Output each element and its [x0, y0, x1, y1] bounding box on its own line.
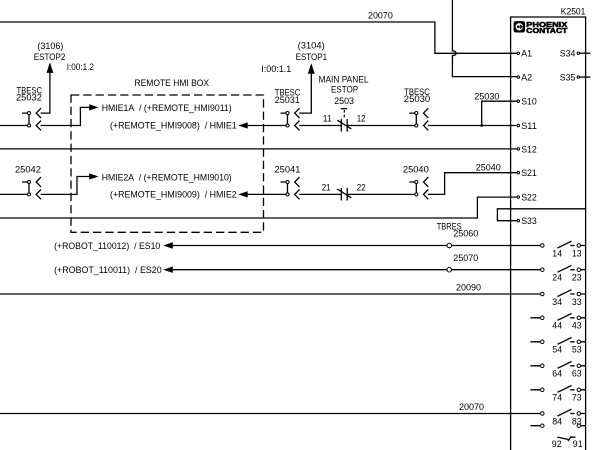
svg-text:A1: A1: [521, 49, 532, 59]
svg-text:20070: 20070: [368, 11, 393, 21]
pin A1: [517, 52, 519, 54]
svg-text:S34: S34: [560, 49, 576, 59]
pin S11: [517, 124, 519, 126]
arrow ES10: [163, 242, 173, 248]
svg-text:S10: S10: [521, 97, 537, 107]
svg-text:(3104): (3104): [298, 41, 325, 51]
wire S12 line: [0, 148, 517, 150]
svg-text:S22: S22: [521, 193, 537, 203]
wire ES20 row: [173, 269, 540, 271]
wire 25030 to S11: [428, 125, 517, 127]
terminal 25040: [409, 177, 428, 199]
svg-text:21: 21: [322, 183, 331, 193]
dashed enclosure REMOTE HMI BOX: [71, 95, 264, 232]
svg-text:20070: 20070: [459, 402, 484, 412]
svg-text:74: 74: [552, 393, 562, 403]
contact 23-24: [541, 265, 586, 282]
wire net 20070 top to A1: [0, 22, 517, 53]
svg-text:(+REMOTE_HMI9008) / HMIE1: (+REMOTE_HMI9008) / HMIE1: [110, 120, 237, 130]
svg-text:44: 44: [552, 321, 562, 331]
Phoenix Contact logo: [514, 20, 568, 35]
svg-text:25040: 25040: [476, 163, 501, 173]
wire net 20070 bottom: [0, 413, 540, 415]
terminal 25041: [281, 177, 300, 199]
NC contact 2503 pins 11-12: [337, 109, 351, 132]
wire 25041 to contact 21: [299, 193, 341, 195]
wire HMIE1 to 25031: [248, 125, 286, 127]
contact 91-92: [530, 424, 585, 449]
svg-text:25031: 25031: [275, 95, 300, 105]
wire 25031 to contact 11: [299, 125, 341, 127]
terminal TBESC 25031: [281, 108, 300, 130]
svg-text:20090: 20090: [456, 282, 481, 292]
svg-text:84: 84: [552, 416, 562, 426]
svg-text:43: 43: [572, 321, 582, 331]
svg-text:REMOTE HMI BOX: REMOTE HMI BOX: [135, 78, 210, 88]
svg-text:63: 63: [572, 369, 582, 379]
svg-text:92: 92: [552, 439, 562, 449]
pin S34: [580, 52, 591, 54]
svg-text:(+ROBOT_110011) / ES20: (+ROBOT_110011) / ES20: [54, 265, 162, 275]
svg-text:(+REMOTE_HMI9009) / HMIE2: (+REMOTE_HMI9009) / HMIE2: [110, 189, 237, 199]
svg-text:S21: S21: [521, 168, 537, 178]
svg-text:HMIE2A / (+REMOTE_HMI9010): HMIE2A / (+REMOTE_HMI9010): [102, 172, 232, 182]
terminal TBESC 25032: [22, 108, 41, 130]
svg-text:I:00:1.1: I:00:1.1: [261, 64, 291, 74]
svg-text:53: 53: [572, 345, 582, 355]
svg-text:S35: S35: [560, 73, 576, 83]
svg-text:24: 24: [552, 273, 562, 283]
wire branch 25030 to S10: [482, 101, 517, 125]
svg-text:(+ROBOT_110012) / ES10: (+ROBOT_110012) / ES10: [54, 241, 160, 251]
svg-text:25042: 25042: [15, 164, 41, 174]
svg-text:25070: 25070: [453, 253, 478, 263]
svg-text:A2: A2: [521, 73, 532, 83]
svg-text:MAIN PANEL: MAIN PANEL: [319, 75, 369, 85]
svg-text:33: 33: [572, 297, 582, 307]
svg-text:HMIE1A / (+REMOTE_HMI9011): HMIE1A / (+REMOTE_HMI9011): [102, 103, 232, 113]
svg-text:23: 23: [572, 273, 582, 283]
svg-text:13: 13: [572, 248, 582, 258]
svg-text:25041: 25041: [275, 164, 301, 174]
contact 13-14: [541, 241, 586, 258]
svg-text:25030: 25030: [474, 91, 499, 101]
wire contact 22 to 25040: [347, 193, 414, 195]
wire HMIE2 to 25041: [248, 193, 286, 195]
svg-text:73: 73: [572, 393, 582, 403]
wire 25040 to S21: [428, 173, 517, 195]
wire contact 12 to 25030: [347, 125, 414, 127]
junction node: [480, 124, 483, 127]
pin S12: [517, 148, 519, 150]
svg-text:34: 34: [552, 297, 562, 307]
pin S21: [517, 172, 519, 174]
terminal 25042: [22, 177, 41, 199]
wire to A2: [452, 0, 516, 77]
arrow HMIE2: [238, 191, 247, 197]
pin S10: [517, 100, 519, 102]
svg-text:ESTOP1: ESTOP1: [296, 52, 328, 62]
arrow HMIE2A: [89, 173, 98, 179]
wire net 20090: [0, 293, 540, 295]
wire branch to ESTOP2 arrow: [41, 73, 50, 113]
svg-text:14: 14: [552, 248, 562, 258]
contact 43-44: [530, 314, 585, 331]
svg-text:91: 91: [573, 439, 583, 449]
svg-text:S11: S11: [521, 121, 537, 131]
svg-text:ESTOP2: ESTOP2: [34, 52, 66, 62]
pin S22: [517, 196, 519, 198]
wire S22 line: [0, 197, 517, 218]
contact 73-74: [530, 386, 585, 403]
svg-text:11: 11: [323, 114, 332, 124]
wire ES10 row: [173, 245, 540, 247]
arrow ES20: [163, 267, 173, 273]
svg-text:12: 12: [357, 114, 366, 124]
svg-text:2503: 2503: [334, 96, 354, 106]
wire row2 jog to HMIE2A arrow: [41, 177, 90, 195]
arrow HMIE1A: [89, 104, 98, 110]
wire row1 left: [0, 125, 27, 127]
arrow HMIE1: [238, 122, 247, 128]
wire branch to ESTOP1 arrow: [299, 74, 311, 114]
svg-text:S12: S12: [521, 144, 537, 154]
contact 53-54: [530, 338, 585, 355]
svg-text:25040: 25040: [403, 164, 429, 174]
NC contact pins 21-22: [337, 188, 351, 201]
contact 63-64: [530, 362, 585, 379]
TBRES plug 25070: [447, 267, 452, 272]
svg-text:54: 54: [552, 345, 562, 355]
svg-text:K2501: K2501: [561, 7, 586, 17]
svg-text:I:00:1.2: I:00:1.2: [67, 62, 94, 72]
wire row1 into HMI box, jog up to HMIE1A arrow: [41, 107, 90, 125]
svg-text:25060: 25060: [453, 228, 478, 238]
svg-text:25030: 25030: [404, 94, 430, 104]
svg-text:ESTOP: ESTOP: [331, 85, 358, 95]
svg-text:64: 64: [552, 369, 562, 379]
wire S33: [497, 209, 585, 221]
svg-text:22: 22: [357, 183, 366, 193]
svg-text:25032: 25032: [16, 92, 42, 102]
contact 33-34: [541, 290, 586, 307]
pin S33: [517, 220, 519, 222]
pin S35: [580, 76, 591, 78]
TBRES plug 25060: [447, 243, 452, 248]
pin A2: [517, 76, 519, 78]
svg-text:(3106): (3106): [37, 41, 63, 51]
terminal TBESC 25030: [409, 108, 428, 130]
svg-text:CONTACT: CONTACT: [526, 26, 567, 35]
wire row2 left: [0, 193, 27, 195]
svg-text:S33: S33: [521, 216, 537, 226]
relay K2501 outline: [511, 17, 586, 450]
contact 83-84: [541, 409, 586, 426]
